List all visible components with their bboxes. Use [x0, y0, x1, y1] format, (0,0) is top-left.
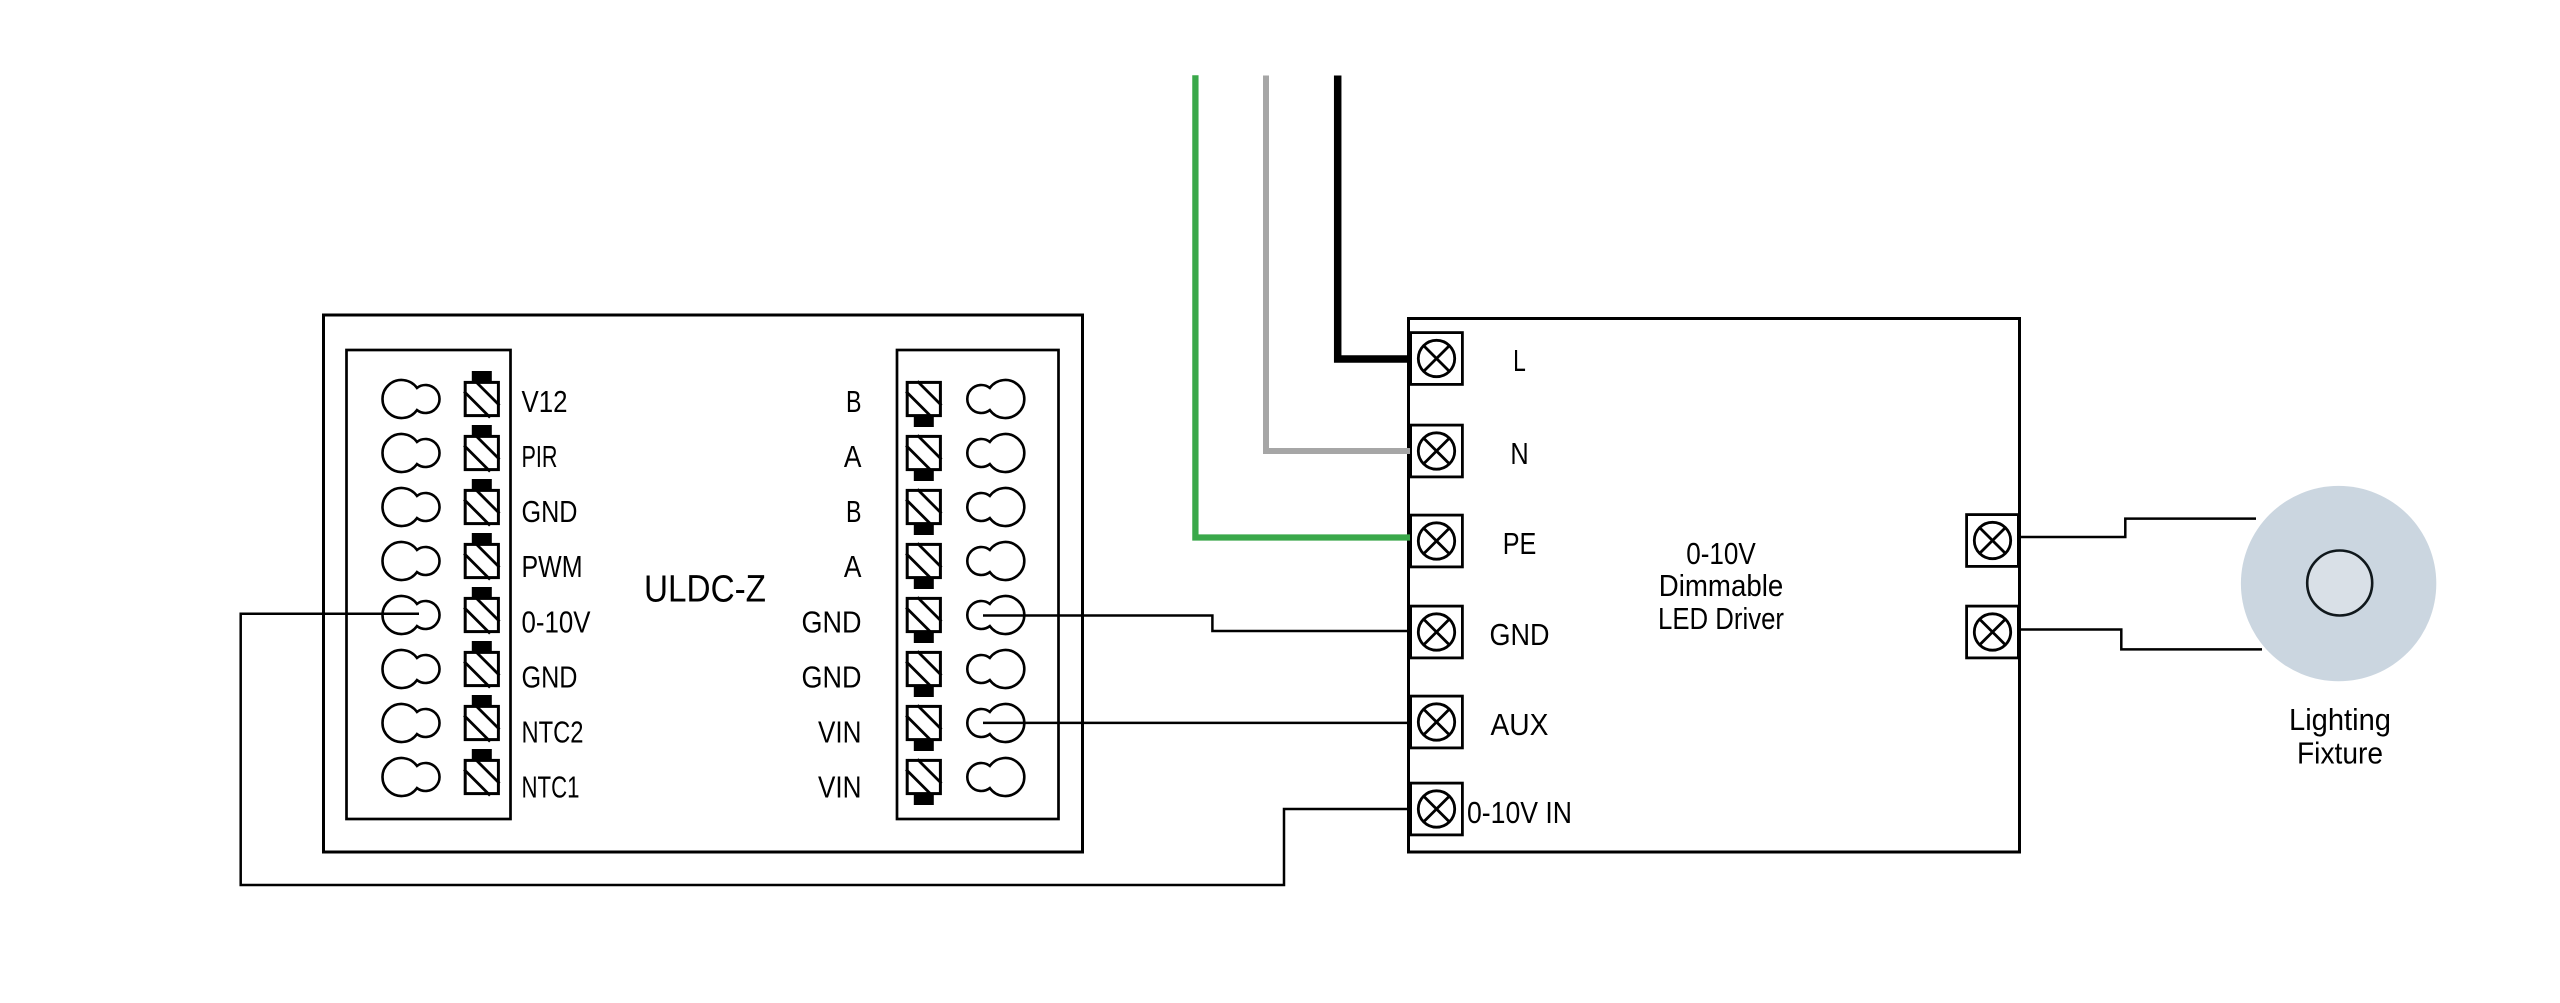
terminal VIN1 screw [906, 705, 941, 751]
terminal V12 hole [382, 380, 439, 418]
wire VIN to AUX [983, 722, 1410, 725]
svg-text:Fixture: Fixture [2297, 736, 2383, 771]
svg-text:GND: GND [522, 494, 578, 529]
terminal GND2 screw [464, 641, 499, 688]
svg-text:NTC1: NTC1 [522, 770, 580, 805]
terminal B2 screw [906, 489, 941, 535]
terminal A1 screw [906, 435, 941, 481]
terminal GNDr2 hole [967, 650, 1024, 688]
terminal L [1411, 333, 1463, 385]
controller box ULDC-Z [324, 315, 1083, 852]
svg-text:0-10V IN: 0-10V IN [1467, 795, 1572, 830]
terminal GNDr screw [906, 597, 941, 643]
terminal NTC2 screw [464, 695, 499, 742]
svg-text:PWM: PWM [522, 549, 583, 584]
svg-text:GND: GND [522, 660, 578, 695]
terminal NTC1 screw [464, 749, 499, 796]
svg-text:NTC2: NTC2 [522, 715, 584, 750]
terminal V12 screw [464, 371, 499, 418]
terminal 0-10V IN [1411, 783, 1463, 835]
terminal NTC1 hole [382, 758, 439, 796]
terminal GND screw [464, 479, 499, 526]
terminal OUT+ [1967, 515, 2019, 567]
terminal NTC2 hole [382, 704, 439, 742]
wire driver to fixture top [2020, 519, 2257, 537]
terminal PWM hole [382, 542, 439, 580]
terminal B2 hole [967, 488, 1024, 526]
svg-text:LED Driver: LED Driver [1658, 601, 1784, 636]
svg-text:B: B [846, 494, 862, 529]
svg-text:A: A [844, 439, 862, 474]
terminal 0-10V hole [382, 596, 439, 634]
svg-text:V12: V12 [522, 384, 568, 419]
terminal GND hole [382, 488, 439, 526]
terminal GND2 hole [382, 650, 439, 688]
driver box [1409, 319, 2020, 853]
wire green PE [1195, 75, 1410, 537]
svg-text:GND: GND [802, 605, 862, 640]
svg-text:ULDC-Z: ULDC-Z [644, 569, 766, 611]
right terminal block [897, 350, 1059, 819]
svg-text:GND: GND [802, 660, 862, 695]
terminal PWM screw [464, 533, 499, 580]
wire black L [1338, 76, 1410, 360]
svg-text:N: N [1510, 436, 1528, 471]
terminal A2 hole [967, 542, 1024, 580]
terminal PE [1411, 515, 1463, 567]
left terminal block [347, 350, 511, 819]
terminal A1 hole [967, 434, 1024, 472]
svg-text:Dimmable: Dimmable [1659, 568, 1784, 603]
terminal B1 hole [967, 380, 1024, 418]
terminal B1 screw [906, 381, 941, 427]
svg-text:B: B [846, 384, 862, 419]
wire 0-10V to 0-10V IN [241, 614, 1410, 885]
wire driver to fixture bottom [2020, 630, 2263, 650]
svg-text:VIN: VIN [818, 715, 862, 750]
svg-text:0-10V: 0-10V [1686, 536, 1756, 571]
svg-text:Lighting: Lighting [2289, 702, 2391, 737]
terminal VIN2 screw [906, 759, 941, 805]
lighting fixture circle [2241, 486, 2436, 681]
terminal VIN2 hole [967, 758, 1024, 796]
terminal PIR hole [382, 434, 439, 472]
terminal PIR screw [464, 425, 499, 472]
svg-text:PE: PE [1503, 526, 1537, 561]
svg-text:A: A [844, 549, 862, 584]
terminal 0-10V screw [464, 587, 499, 634]
svg-text:L: L [1513, 343, 1526, 378]
svg-text:0-10V: 0-10V [522, 605, 591, 640]
terminal GNDd [1411, 606, 1463, 658]
wire GND to GND [983, 616, 1410, 632]
lighting fixture lens [2307, 551, 2372, 616]
terminal AUX [1411, 696, 1463, 748]
terminal VIN1 hole [967, 704, 1024, 742]
terminal OUT- [1967, 606, 2019, 658]
terminal GNDr hole [967, 596, 1024, 634]
svg-text:AUX: AUX [1491, 707, 1549, 742]
terminal N [1411, 425, 1463, 477]
svg-text:GND: GND [1490, 617, 1550, 652]
svg-text:VIN: VIN [818, 770, 862, 805]
svg-text:PIR: PIR [522, 439, 558, 474]
wire gray N [1266, 76, 1410, 452]
terminal A2 screw [906, 543, 941, 589]
terminal GNDr2 screw [906, 651, 941, 697]
